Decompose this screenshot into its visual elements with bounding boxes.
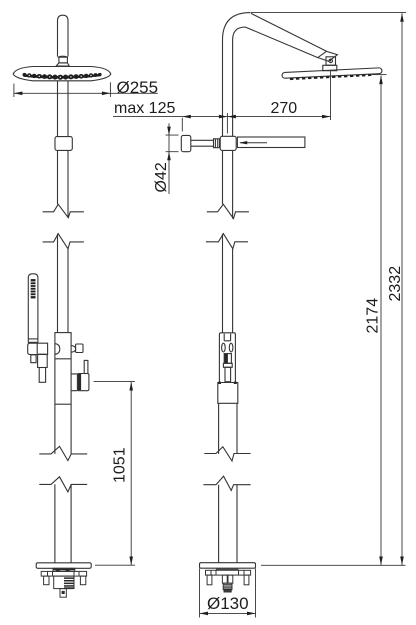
right view: mixer side inner tube (224, 334, 230, 341)
dim max125 line (113, 116, 227, 118)
arrow Ø255 left (14, 92, 23, 96)
right view: pipe bend inner (233, 27, 246, 50)
arrow 1051 bottom (129, 557, 133, 566)
left view: top pipe with rounded cap (58, 15, 69, 56)
arrow 270 right (322, 115, 331, 119)
break symbol lower pair left view top (39, 446, 87, 460)
right view: arm inner arrow (240, 142, 267, 144)
right view: head connector detail circle (329, 59, 333, 63)
right view: wall tube (191, 140, 214, 146)
right view: wall flange (181, 135, 191, 151)
hose connector under handle (31, 355, 36, 363)
right view: overhead arm top edge (251, 13, 327, 51)
diverter block under holder (38, 354, 48, 367)
arrow 2174 top (379, 76, 383, 85)
left base: bracket notches (48, 571, 80, 576)
right view: wall tube fitting (214, 139, 220, 148)
right view: head connector box (326, 57, 336, 65)
right view: holder side ellipse right (229, 343, 233, 352)
dim 1051 bottom extension (95, 564, 135, 566)
right view: body seam (219, 403, 237, 454)
svg-text:Ø255: Ø255 (117, 78, 159, 97)
dim 1051 top extension (94, 380, 135, 382)
right view: pipe to mixer side body (223, 234, 233, 333)
left view: mixer body seam (55, 358, 71, 360)
break symbol upper pair right view bottom (206, 234, 248, 249)
hand shower handle joint line (28, 338, 38, 340)
left base: left bolt (44, 576, 49, 585)
right view: overhead arm bottom edge (246, 27, 318, 57)
right base: thread bands (223, 584, 232, 589)
right base: bottom cap (224, 590, 231, 592)
dim 1051 line (130, 382, 132, 565)
right base: center stubs (222, 575, 227, 583)
hand shower holder cradle (28, 343, 48, 354)
left base: thread bands (54, 569, 75, 594)
outlet knob stem (84, 360, 88, 373)
dim Ø255 extension lines (14, 82, 111, 97)
right base: right bolt (244, 575, 249, 585)
break symbol lower pair left view bottom (39, 477, 87, 492)
break symbol lower pair right view bottom (203, 476, 250, 490)
dim 2332 line (401, 13, 403, 565)
left view: shower head disc (13, 67, 111, 81)
right view: head spray dots (290, 74, 371, 80)
right base: threaded part (223, 583, 232, 589)
arrow Ø255 right (102, 92, 111, 96)
left view: lower column tube (55, 404, 71, 454)
svg-text:1051: 1051 (112, 447, 129, 483)
left view: head connector body (59, 57, 68, 63)
dim 2332 top extension (251, 12, 406, 14)
hand shower dark spray insert (31, 279, 36, 298)
right view: base plate (200, 563, 256, 569)
left view: bottom column tube (55, 484, 71, 562)
mixer side knob (76, 344, 83, 353)
svg-text:max 125: max 125 (114, 100, 175, 117)
arrow 2332 bottom (400, 557, 404, 566)
arrow 1051 top (129, 382, 133, 391)
outlet knob dark band (78, 374, 81, 390)
dim Ø42 extension ticks (166, 135, 179, 152)
left view: base plate (36, 563, 91, 569)
right view: outlet stem front (225, 367, 231, 381)
dim 2174 top extension (372, 74, 387, 76)
right view: shower head slab (282, 68, 382, 79)
arrow Ø42 top (167, 127, 171, 136)
svg-text:Ø42: Ø42 (153, 162, 170, 192)
right base: left bolt (207, 575, 212, 585)
left view: mixer body (55, 333, 71, 405)
arrow Ø130 left (200, 612, 209, 616)
right view: wall arm bar (237, 137, 305, 148)
arrow Ø130 right (247, 612, 256, 616)
right view: junction box on pipe (220, 136, 236, 150)
left base: bracket bar (41, 571, 86, 576)
holder clamp inner line (36, 343, 38, 354)
dim 2174 line (380, 76, 382, 565)
right base: bracket bar (206, 570, 251, 575)
arrow 2174 bottom (379, 557, 383, 566)
break symbol upper pair left view top (43, 204, 84, 217)
hand shower handle (28, 274, 38, 343)
diverter lower stem (39, 368, 45, 383)
left base: bottom tab (60, 589, 66, 598)
pipe centerline stub (226, 113, 228, 134)
spray nozzle band underlay (24, 74, 101, 79)
right view: lower body wide section (218, 383, 238, 404)
left view: pipe to mixer (58, 234, 69, 333)
dim bottom right extension (261, 564, 406, 566)
left view: cap bottom arc (58, 56, 68, 57)
left view: connector flare skirt (56, 63, 69, 66)
right view: knob stack mid (223, 363, 232, 367)
spray nozzle dot band on head (front view) (23, 73, 102, 80)
dim Ø255 line (14, 92, 158, 94)
right view: pipe down to junction (223, 50, 233, 136)
right view: pipe junction to break (223, 150, 233, 218)
right view: arm end cap (318, 51, 338, 61)
mixer side knob bump (71, 346, 76, 353)
dim Ø130 line (200, 612, 256, 614)
left view: pipe below head (58, 81, 69, 137)
svg-text:270: 270 (271, 100, 298, 117)
arrow max125 right (219, 115, 228, 119)
break symbol lower pair right view top (204, 447, 250, 461)
left view: slider box on pipe (55, 137, 72, 151)
arrow 270 left (227, 115, 236, 119)
outlet neck step lines (71, 374, 77, 391)
arrow 2332 top (400, 13, 404, 22)
right view: knob stack upper (224, 354, 231, 364)
right view: holder side ellipse left (222, 343, 226, 352)
holder dome on mixer body (55, 344, 60, 355)
dim Ø130 extension lines (200, 569, 256, 618)
lower outlet knob (77, 374, 89, 391)
right base: dark mount seam (216, 568, 239, 570)
arrow Ø42 bottom (167, 152, 171, 161)
dim Ø42 vertical line (168, 123, 170, 194)
left base: right bolt (80, 576, 85, 585)
spray nozzle white centers (29, 75, 92, 78)
break symbol upper pair right view top (207, 204, 249, 218)
arrow max125 left (182, 115, 191, 119)
right view: bottom column (219, 485, 237, 563)
dim 270 right extension through head (330, 71, 332, 120)
right view: head connector base (323, 65, 337, 70)
dim 270 line (227, 116, 330, 118)
svg-text:2174: 2174 (365, 298, 382, 334)
right view: pipe bend outer (223, 13, 251, 50)
left view: pipe to first break (58, 150, 69, 217)
break symbol upper pair left view bottom (43, 234, 84, 249)
right base: bracket notches (211, 570, 244, 575)
svg-text:Ø130: Ø130 (207, 594, 249, 613)
right view: side nubs (218, 382, 221, 384)
left base: center body (54, 576, 74, 589)
right view: mixer side body (219, 333, 235, 383)
svg-text:2332: 2332 (387, 266, 404, 302)
right view: knob stack dark half (225, 354, 228, 363)
left base: under-plate bar (53, 568, 75, 571)
dim max125 left extension (181, 118, 183, 132)
